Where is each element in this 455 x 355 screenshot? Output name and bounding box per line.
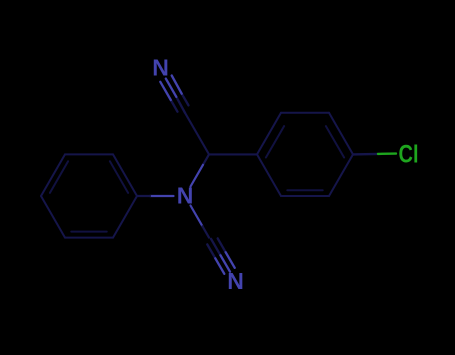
wire triple2 right dark xyxy=(218,238,226,252)
wire triple1 left dark xyxy=(171,100,178,112)
wire inner aromatic line C3'-C4' xyxy=(50,161,68,193)
wire triple2 left dark xyxy=(207,244,215,258)
right chlorophenyl ring xyxy=(257,113,353,196)
wire inner aromatic line C1'-C2' xyxy=(110,161,128,193)
wire inner aromatic line C3-C4 xyxy=(326,126,344,157)
wire inner aromatic line C1-C2 xyxy=(266,126,284,157)
bond CH - N center xyxy=(191,154,210,186)
wire triple2 center bright xyxy=(221,255,231,271)
svg-text:N: N xyxy=(152,55,169,81)
wire ring edge C5'-C6' xyxy=(65,237,113,239)
wire C4-Cl dark part xyxy=(353,153,378,156)
svg-text:N: N xyxy=(227,268,244,294)
nitrile 1 triple bond (top) xyxy=(160,76,188,113)
wire ring edge C6-C1 xyxy=(257,154,281,196)
wire ring edge C6'-C1' xyxy=(113,196,137,238)
svg-text:N: N xyxy=(177,183,194,209)
wire bond CH - C nitrile1 xyxy=(185,113,209,155)
wire triple2 right bright xyxy=(226,252,235,268)
wire N-Ccyan dark part xyxy=(203,226,210,237)
nitrile 2 triple bond (bottom) xyxy=(207,238,234,273)
bond N center - C cyanamide xyxy=(191,206,210,238)
wire ring edge C1-C2 xyxy=(257,113,281,155)
wire CH-N bright part xyxy=(191,165,204,187)
wire C4-Cl green part xyxy=(378,152,396,155)
wire ring edge C3'-C4' xyxy=(41,154,65,196)
wire ring edge C5-C6 xyxy=(281,195,329,197)
wire ring edge C2'-C3' xyxy=(65,153,113,155)
left phenyl ring xyxy=(41,154,137,237)
wire triple1 left bright xyxy=(160,82,171,100)
wire inner aromatic line C5-C6 xyxy=(287,189,322,191)
wire triple2 center dark xyxy=(211,239,221,256)
bond N center - left ring xyxy=(137,195,174,197)
wire ring edge C4'-C5' xyxy=(41,196,65,238)
wire ring edge C4-C5 xyxy=(329,154,353,196)
wire inner aromatic line C5'-C6' xyxy=(71,231,106,233)
svg-text:Cl: Cl xyxy=(399,141,419,169)
wire N-C1' dark part xyxy=(137,195,150,197)
wire triple1 center dark xyxy=(176,97,185,113)
wire CH-N dark part xyxy=(203,154,209,164)
wire bond CH - C1 (to right ring) xyxy=(209,153,257,155)
wire ring edge C1'-C2' xyxy=(113,154,137,196)
wire triple1 right dark xyxy=(182,94,189,106)
wire ring edge C2-C3 xyxy=(281,112,329,114)
wire triple2 left bright xyxy=(215,258,224,274)
wire ring edge C3-C4 xyxy=(329,113,353,155)
wire triple1 center bright xyxy=(166,79,177,97)
wire N-Ccyan bright part xyxy=(191,206,203,227)
bond C4 - Cl xyxy=(353,152,396,155)
wire triple1 right bright xyxy=(172,76,182,94)
wire N-C1' bright part xyxy=(150,195,174,197)
